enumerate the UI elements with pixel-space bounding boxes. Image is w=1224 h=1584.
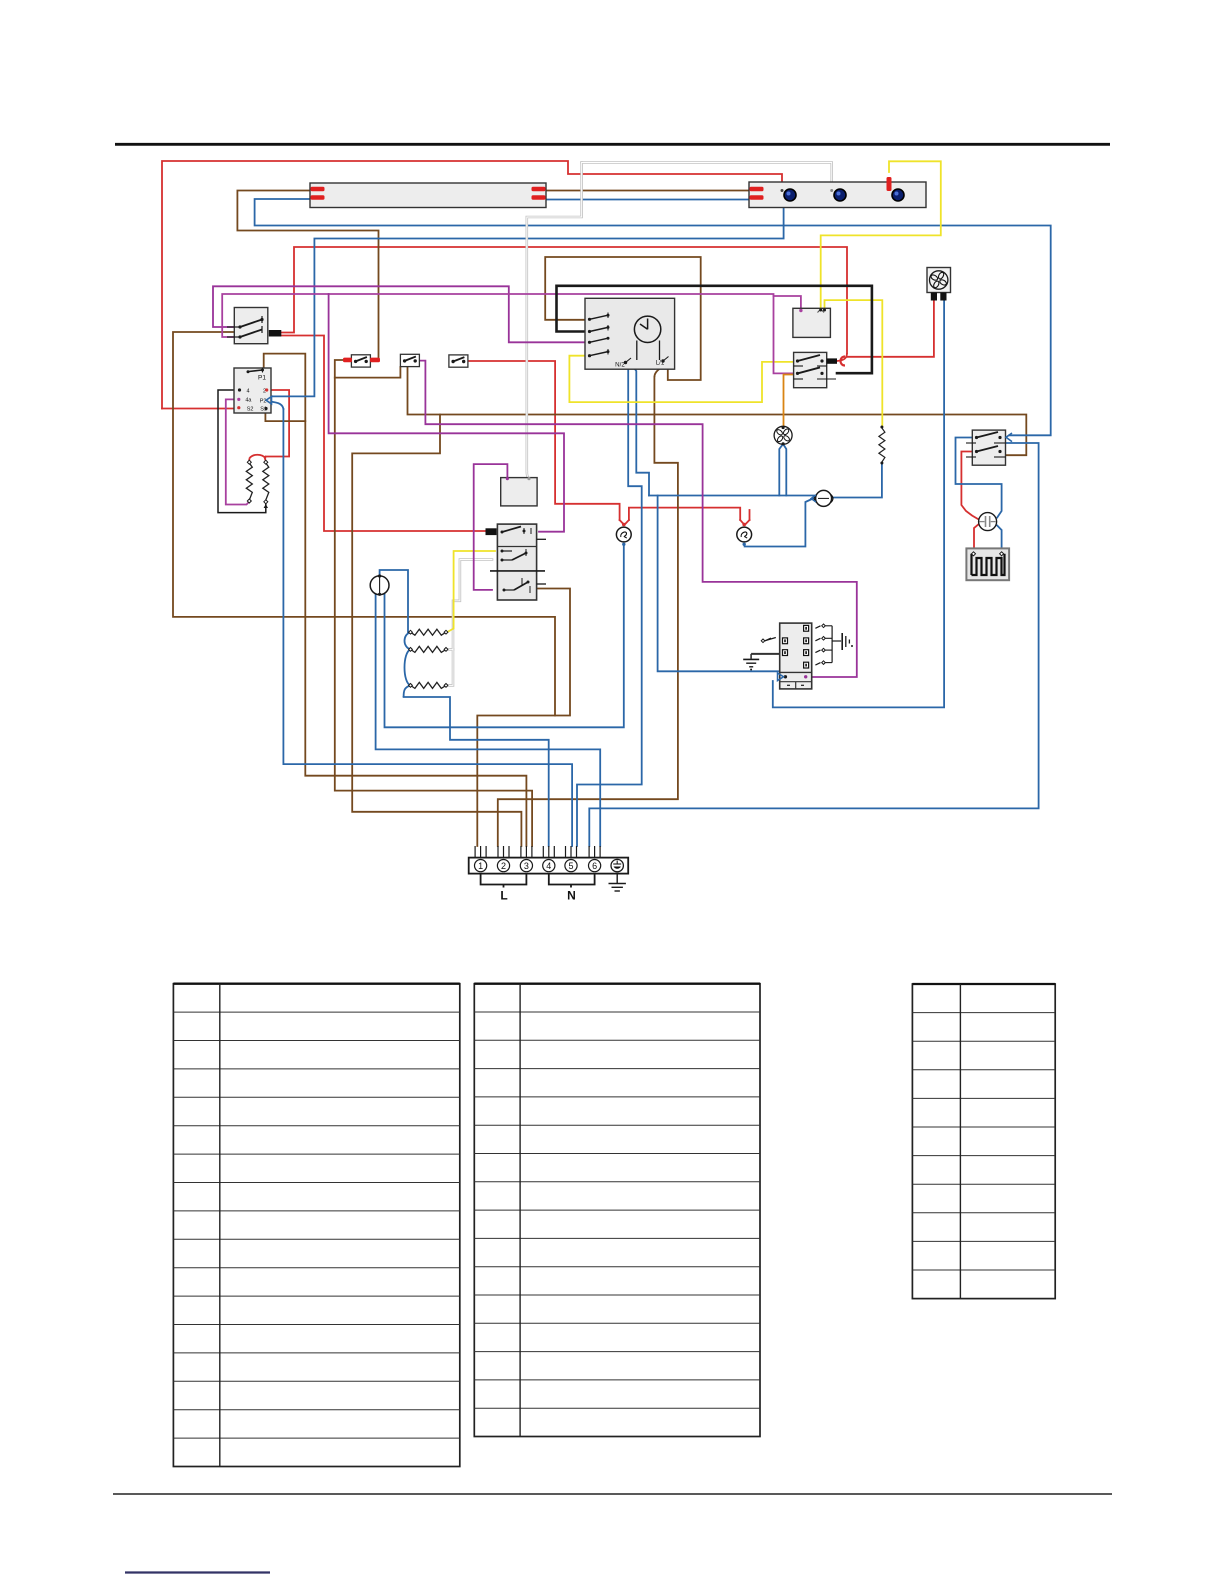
svg-text:P2: P2 (260, 399, 267, 405)
svg-text:3: 3 (524, 861, 529, 871)
svg-text:6: 6 (592, 861, 597, 871)
svg-text:P1: P1 (258, 375, 266, 382)
svg-text:5: 5 (568, 861, 573, 871)
svg-text:1: 1 (478, 861, 483, 871)
svg-text:L: L (500, 889, 507, 903)
svg-text:2: 2 (501, 861, 506, 871)
svg-text:4: 4 (546, 861, 551, 871)
svg-text:4: 4 (246, 388, 249, 394)
svg-text:S2: S2 (247, 407, 254, 413)
svg-text:N: N (567, 889, 576, 903)
svg-text:4a: 4a (245, 398, 252, 404)
